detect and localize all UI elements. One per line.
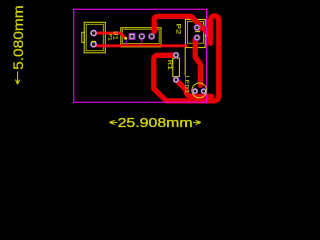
- dimension: horizontal 25.908mm arrows: [109, 120, 200, 124]
- ratsnest stub below U1 pad2: [141, 40, 143, 44]
- connector P2 outline (silkscreen): [185, 19, 205, 47]
- IC U1 pad 2: [138, 33, 145, 40]
- connector P2 tab: [205, 28, 207, 36]
- svg-text:R1: R1: [166, 60, 173, 71]
- wire: thin trace T2 from P1 pad2 across to P2 net: [94, 44, 187, 46]
- wire: thick trace from U1 pad3 up and over to P2 pad1: [154, 16, 200, 31]
- board outline (Edge.Cuts): [74, 9, 207, 102]
- connector P1 outline (silkscreen): [84, 22, 105, 53]
- svg-text:5.080mm: 5.080mm: [11, 5, 26, 70]
- connector P1 pad 2: [90, 41, 97, 48]
- wire: thin trace T1 from P1 pad1 to U1 pin1 area: [94, 33, 125, 38]
- resistor R1 pad 2: [173, 76, 180, 83]
- LED1 cathode silk line: [184, 48, 186, 76]
- IC U1 outline (silkscreen): [121, 28, 161, 47]
- wire: thick loop trace from P2 pad1 around right and bottom to R1 pad1: [154, 16, 219, 101]
- dimension: vertical 5.080mm arrow: [16, 72, 20, 85]
- svg-text:LED1: LED1: [183, 75, 190, 94]
- wire: thick trace from R1 pad2 wrapping under LED1: [176, 80, 212, 97]
- wire: thick trace from P2 pad2 down toward LED1: [195, 38, 200, 85]
- LED LED1 pad 1: [192, 88, 198, 94]
- IC U1 outline bottom edge peeking below trace: [121, 46, 161, 48]
- connector P1 tab: [82, 32, 84, 42]
- ratsnest stub below U1 pin1 dot: [125, 40, 127, 45]
- resistor R1 pad 1: [173, 52, 180, 59]
- node: trace end dot at U1 pin1: [124, 37, 127, 40]
- connector P2 pad 2: [194, 34, 201, 41]
- LED LED1 body circle (silkscreen over trace): [192, 83, 207, 98]
- svg-text:P2: P2: [175, 24, 182, 36]
- svg-text:U1: U1: [111, 31, 118, 40]
- IC U1 pad 1 (square): [129, 33, 136, 40]
- LED LED1 pad 2: [201, 88, 207, 94]
- connector P1 pad 1: [90, 30, 97, 37]
- IC U1 pad 3: [148, 33, 155, 40]
- connector P2 pad 1: [194, 24, 201, 31]
- resistor R1 body (silkscreen): [173, 58, 180, 76]
- svg-text:25.908mm: 25.908mm: [118, 115, 193, 130]
